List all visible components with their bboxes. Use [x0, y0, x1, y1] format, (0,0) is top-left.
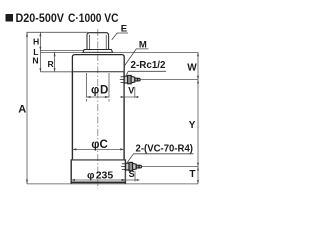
upper port thread ticks — [121, 76, 125, 78]
svg-text:φD: φD — [91, 85, 108, 97]
dimension R line — [54, 52, 56, 71]
dimension S line — [122, 179, 140, 181]
phiD dimension line — [87, 96, 110, 98]
svg-text:2-(VC-70-R4): 2-(VC-70-R4) — [136, 143, 194, 154]
extension line collar top (H target) — [40, 49, 84, 51]
phiC dimension line — [72, 148, 124, 150]
dimension H L N line — [39, 32, 41, 72]
M underline and leader — [125, 49, 149, 66]
2-(VC-70-R4) underline and leader — [127, 154, 194, 163]
dimension V extension line left — [123, 84, 125, 97]
dimension S extension line right — [134, 171, 136, 181]
cap bottom line — [72, 71, 124, 73]
dimension A line — [26, 32, 28, 184]
dimension W line — [197, 52, 199, 79]
dimension V extension line right — [134, 87, 136, 98]
svg-text:2-Rc1/2: 2-Rc1/2 — [131, 60, 166, 71]
svg-text:D20-500V: D20-500V — [16, 11, 65, 25]
dimension T line — [197, 167, 199, 184]
phiD extension line right — [108, 73, 110, 98]
centerline — [97, 29, 99, 189]
cylinder cap — [72, 55, 124, 72]
extension line collar bottom right part to W — [113, 51, 199, 53]
bottom extension line — [27, 183, 198, 185]
svg-text:W: W — [187, 62, 197, 73]
boss thread line right — [105, 35, 107, 50]
base — [71, 159, 126, 161]
svg-text:T: T — [189, 169, 195, 180]
svg-text:Y: Y — [189, 120, 196, 131]
svg-text:C·1000 VC: C·1000 VC — [68, 11, 119, 25]
top extension line — [27, 31, 89, 33]
base bottom thick edge — [71, 181, 126, 183]
E underline and leader — [112, 33, 128, 40]
rod boss — [87, 33, 109, 50]
dimension S extension line left — [125, 171, 127, 181]
svg-text:φ235: φ235 — [87, 170, 113, 182]
rod collar — [83, 50, 113, 53]
upper port coupler fitting — [124, 75, 140, 83]
lower port coupler fitting — [126, 162, 142, 170]
lower port thread ticks — [122, 163, 126, 165]
extension line collar bottom (L target / W origin) left part — [40, 51, 83, 53]
boss thread line left — [88, 35, 90, 50]
svg-text:A: A — [18, 103, 26, 115]
upper port centerline extension to W/Y — [140, 79, 198, 81]
svg-text:N: N — [32, 56, 38, 66]
svg-text:V: V — [128, 85, 134, 95]
phi235 dimension line — [71, 179, 126, 181]
2-Rc1/2 underline and leader — [126, 71, 166, 76]
lower port centerline extension to T — [142, 166, 198, 168]
dimension Y line — [197, 80, 199, 167]
dimension V line — [120, 96, 139, 98]
phiD extension line left — [86, 73, 88, 98]
svg-text:H: H — [33, 36, 39, 46]
extension line cap bottom (N target) — [40, 71, 72, 73]
cylinder body — [71, 72, 73, 160]
title block square — [6, 14, 14, 22]
svg-text:S: S — [129, 169, 135, 179]
svg-text:R: R — [48, 59, 55, 69]
svg-text:φC: φC — [91, 139, 108, 151]
